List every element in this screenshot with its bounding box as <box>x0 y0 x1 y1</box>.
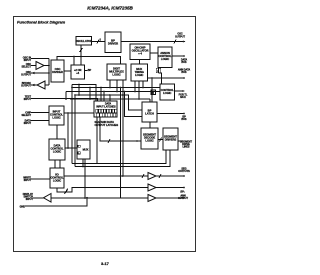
wire buffer B2 to bp/osc pin <box>31 84 49 86</box>
segment drivers block U13 <box>163 128 178 150</box>
mesh horizontal y84.5 <box>72 85 96 102</box>
wire u6 bp stub <box>85 69 88 71</box>
buffer B4 seg output driver <box>148 173 156 180</box>
on-chip divider block U3 <box>130 44 150 60</box>
svg-text:INPUT: INPUT <box>24 179 32 182</box>
wire B3 input from right <box>51 197 121 199</box>
wire buffer B1 output <box>44 65 49 67</box>
svg-text:OSCILLATOR: OSCILLATOR <box>75 39 92 43</box>
horizontal y163.5 <box>72 150 166 164</box>
input control block U14 <box>49 106 64 125</box>
vertical x124.5 to u11 lower stub <box>124 91 142 117</box>
mesh horizontal y91.5 <box>66 91 160 93</box>
wire seg buffer output <box>156 174 185 178</box>
pin label TEST <box>24 96 32 102</box>
svg-text:BUS: BUS <box>181 61 187 64</box>
vertical x120.5 bundle <box>120 87 122 198</box>
BP latch block U11 <box>142 102 157 122</box>
vertical from y78 to u11 top <box>151 77 153 102</box>
osc divider block U5 <box>51 60 64 82</box>
wire u11 right bp bus <box>157 113 185 115</box>
wire osc divider to u6 <box>64 70 71 72</box>
wire u13 right stub <box>178 140 183 142</box>
svg-text:DRIVER: DRIVER <box>108 42 118 46</box>
wire u14 right to u10 <box>64 112 94 114</box>
mesh vertical x66 <box>65 92 67 100</box>
pin label BP/OSC OUTPUT <box>21 82 32 88</box>
vertical u10 top feed x104 <box>103 91 105 101</box>
label ANN OUTPUT right <box>178 194 189 200</box>
buffer B1 osc input <box>36 62 44 70</box>
pin label WRITE <box>23 176 31 182</box>
wire bp buffer output <box>156 187 185 189</box>
vertical x85 to output line <box>84 159 86 199</box>
wire u17 bottom bus <box>57 187 72 194</box>
svg-text:3-17: 3-17 <box>101 261 110 266</box>
data control block U15 <box>49 139 65 160</box>
label SEG DATA BUS right <box>178 69 191 75</box>
wire u6 top feeds <box>73 57 75 66</box>
buffer B5 bp output driver <box>148 184 156 191</box>
wire u12 to u13 <box>158 138 163 142</box>
wire u3 bottom to u8 top <box>139 60 141 65</box>
wire gnd <box>25 198 87 206</box>
divide-by block U6 <box>71 65 85 79</box>
svg-text:BP₁: BP₁ <box>180 190 184 193</box>
label under U10 <box>95 120 119 127</box>
svg-text:MUX: MUX <box>83 147 89 151</box>
pin label GND <box>20 205 26 208</box>
wire osc output pin <box>31 72 49 74</box>
latch cells of U10 <box>96 109 117 116</box>
wire bp driver to osc output pin <box>121 40 186 44</box>
svg-text:LOGIC: LOGIC <box>163 91 171 95</box>
wire ann buffer input <box>121 196 149 198</box>
mesh vertical x75 <box>74 94 76 166</box>
mesh horizontal y99 <box>70 98 150 100</box>
wire horizontal y56.5 <box>57 56 121 64</box>
svg-text:SELECT: SELECT <box>21 114 31 117</box>
pin label DATA INPUT <box>24 119 32 125</box>
svg-text:OUTPUT: OUTPUT <box>175 36 186 39</box>
label BP small near U6 <box>88 69 92 72</box>
svg-text:DIVIDER: DIVIDER <box>52 70 63 74</box>
svg-text:LOGIC: LOGIC <box>161 57 169 61</box>
svg-text:OUTPUTS: OUTPUTS <box>178 170 190 173</box>
digit multiplex block U7 <box>107 64 126 80</box>
vertical u10 top feed x109.8 <box>109 94 111 101</box>
mesh vertical x72 <box>71 85 73 164</box>
svg-text:OUTPUT: OUTPUT <box>21 85 32 88</box>
mesh horizontal y87.5 <box>72 87 160 89</box>
svg-text:OUTPUT: OUTPUT <box>21 73 32 76</box>
wire u4 bottom to u9 top <box>159 68 162 85</box>
BP driver block U2 <box>105 32 121 53</box>
wire osc input pin <box>31 58 49 60</box>
pin label DISPLAY SWITCH <box>23 193 34 201</box>
mesh vertical x79 <box>78 84 80 96</box>
wire u3 to u4 <box>150 52 158 54</box>
svg-text:LOGIC: LOGIC <box>53 150 61 154</box>
horizontal y166.5 <box>75 150 170 167</box>
wire u15 to u16 <box>65 147 77 149</box>
mesh horizontal y95 <box>75 95 142 110</box>
mux block U16 <box>77 140 90 159</box>
pin label OSC INPUT <box>23 57 32 63</box>
svg-text:INPUT LATCHES: INPUT LATCHES <box>96 105 116 108</box>
svg-text:OUTPUT LATCHES: OUTPUT LATCHES <box>95 123 119 127</box>
label DATA BUS right <box>181 58 188 64</box>
wire u14 data input <box>31 120 49 122</box>
wire test pin <box>31 99 98 102</box>
svg-text:INPUT: INPUT <box>24 59 32 62</box>
svg-text:÷ 4: ÷ 4 <box>138 52 142 56</box>
vertical x68 from u14 bus <box>67 112 69 149</box>
mux timing block U8 <box>131 64 148 81</box>
node x49 vertical <box>48 59 50 86</box>
wire u12 left input <box>100 117 141 143</box>
mesh vertical x90 <box>89 87 91 100</box>
svg-text:SELECT: SELECT <box>21 66 31 69</box>
svg-text:LINES: LINES <box>182 145 189 148</box>
svg-text:LOGIC: LOGIC <box>135 73 143 77</box>
label BP1 right <box>180 190 184 193</box>
annunciator control block U4 <box>158 47 172 68</box>
label TO SEG MUX right <box>179 93 188 99</box>
u8 bottom stubs <box>134 81 144 100</box>
wire u16 bottom <box>82 159 84 167</box>
svg-text:BP: BP <box>88 69 92 72</box>
wire u14 bottom to u15 <box>56 125 58 139</box>
svg-text:4: 4 <box>67 189 69 192</box>
oscillator block U1 <box>75 37 92 46</box>
label SEGMENT DRIVE LINES right <box>180 140 193 148</box>
buffer B6 ann output driver <box>148 195 156 202</box>
vertical x122.8 bundle <box>122 94 124 177</box>
control logic block U9 <box>160 84 175 100</box>
svg-text:INPUT: INPUT <box>24 122 32 125</box>
u7 bottom stubs <box>109 80 124 96</box>
border frame <box>14 17 196 252</box>
wire write input to u17 <box>31 178 50 180</box>
svg-text:INPUT: INPUT <box>26 198 34 201</box>
svg-text:LOGIC: LOGIC <box>52 116 60 120</box>
wire u15 bottom to u17 top <box>55 160 60 168</box>
wire osc box bottom bus <box>80 45 83 65</box>
wire osc select pin to buffer B1 <box>31 65 36 67</box>
io control block U17 <box>50 168 64 188</box>
svg-text:Functional Block Diagram: Functional Block Diagram <box>17 20 66 25</box>
wire u4 right to data bus <box>172 55 185 57</box>
svg-text:LOGIC: LOGIC <box>53 179 61 183</box>
svg-text:BUS: BUS <box>181 118 187 121</box>
svg-text:DRIVERS: DRIVERS <box>165 138 177 142</box>
wire u8 right ann data bus <box>148 77 185 79</box>
wire display switch buffer <box>33 197 44 199</box>
segment decode block U12 <box>141 128 158 149</box>
wire u9 right for tl mux <box>175 90 186 92</box>
svg-text:BUS: BUS <box>181 71 187 74</box>
buffer B2 bp/osc output <box>37 81 45 89</box>
label BP BUS right <box>181 115 187 121</box>
wire u11 bottom to u12 <box>149 122 151 128</box>
pin label OSC OUTPUT <box>21 71 32 77</box>
wire u14 chip select <box>31 112 49 114</box>
pin label OSC SELECT <box>21 63 31 69</box>
svg-text:LOGIC: LOGIC <box>145 139 153 143</box>
wire u11 top <box>149 99 151 102</box>
wire bp buffer input y187 <box>72 187 148 189</box>
wire ann buffer output <box>156 197 185 199</box>
wire u17 right to seg buffer <box>64 174 148 178</box>
label SEG OUTPUTS right <box>178 167 190 173</box>
mesh vertical x101 <box>100 87 102 101</box>
bus tag on y91.5 <box>151 90 156 95</box>
svg-text:GND: GND <box>20 205 26 208</box>
vertical x97 below u10 <box>96 117 98 164</box>
bus tag below u4 <box>156 68 161 73</box>
label OSC OUTPUT right <box>175 33 186 39</box>
pin label CHIP SELECT <box>21 111 31 117</box>
data input latches block U10 <box>94 101 117 117</box>
svg-text:LOGIC: LOGIC <box>112 72 120 76</box>
svg-text:LATCH: LATCH <box>145 111 154 115</box>
wire osc box to bp driver <box>92 39 106 44</box>
svg-text:ICM7234A, ICM7235B: ICM7234A, ICM7235B <box>87 5 133 10</box>
svg-text:MUX: MUX <box>180 96 186 99</box>
svg-text:INPUT: INPUT <box>24 98 32 101</box>
buffer B3 output lower-left <box>44 194 52 203</box>
